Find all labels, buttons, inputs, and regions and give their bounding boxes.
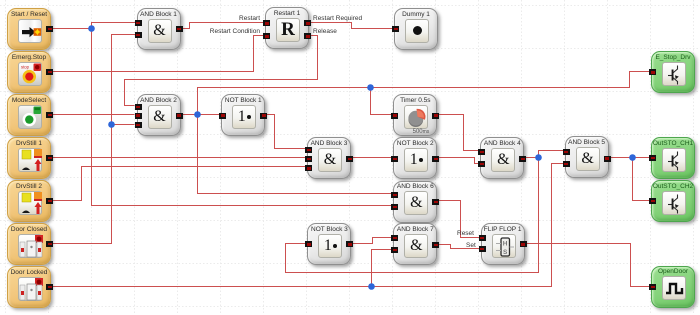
- wire Release to AND2 input 1: [125, 36, 318, 106]
- wire J3 up to AND7 input 2: [372, 250, 393, 287]
- wire AND1 output to Restart input: [181, 23, 263, 29]
- junction J7 AND5 output net: [629, 154, 636, 161]
- gate AND Block 5: [565, 136, 609, 178]
- junction J4 AND2 output net: [194, 111, 201, 118]
- wire Start/Reset to junction J1: [48, 28, 92, 30]
- output OpenDoor: [651, 266, 695, 308]
- gate NOT Block 2: [393, 137, 437, 179]
- wire NOT2 output to AND4 input 2: [438, 158, 479, 164]
- wire AND3 output to NOT2 input: [352, 157, 392, 159]
- label Set: [466, 242, 476, 249]
- input Emerg.Stop: [7, 51, 51, 93]
- wire Timer output to AND4 input 1: [438, 115, 479, 151]
- input Door Locked: [7, 266, 51, 308]
- input ModeSelect: [7, 94, 51, 136]
- label Restart: [239, 15, 260, 22]
- label Restart Condition: [210, 28, 260, 35]
- wire AND7 output to FLIP FLOP Set input: [438, 245, 479, 249]
- junction J5 E-stop line net: [367, 84, 374, 91]
- function Dummy 1: [394, 8, 438, 50]
- svg-text:stop: stop: [21, 64, 30, 69]
- gate AND Block 6: [393, 181, 437, 223]
- wire AND2 output through J4 to NOT1 input: [181, 114, 220, 116]
- svg-text:S: S: [503, 249, 508, 256]
- wire J2 up to AND1 input 2: [112, 35, 137, 125]
- input Start / Reset: [7, 8, 51, 50]
- wire AND6 output to FLIP FLOP Reset input: [438, 201, 479, 238]
- function FLIP FLOP 1: [481, 223, 525, 265]
- gate AND Block 2: [137, 94, 181, 136]
- junction J3 Door Locked net: [368, 283, 375, 290]
- wire Emerg.Stop to Restart Condition: [48, 36, 263, 72]
- wire J6 down and left to NOT3 input: [286, 158, 539, 273]
- output OutSTO_CH1: [651, 137, 695, 179]
- wire Door Locked to J3 to AND5 input 2: [48, 164, 563, 287]
- gate AND Block 7: [393, 223, 437, 265]
- wire DrvStill1 to AND3 input 2: [48, 157, 305, 159]
- svg-text:H: H: [502, 240, 507, 247]
- gate NOT Block 1: [221, 94, 265, 136]
- wire J7 down to OutSTO_CH2: [633, 158, 651, 201]
- wire NOT3 output to AND7 input 1: [352, 238, 392, 244]
- wire J1 down to AND6 input 2: [92, 29, 393, 206]
- gate NOT Block 3: [307, 223, 351, 265]
- input Door Closed: [7, 223, 51, 265]
- junction J1 Start/Reset net: [88, 25, 95, 32]
- wire J1 to AND1 input 1: [92, 23, 137, 29]
- junction J6 AND4 output net: [535, 154, 542, 161]
- gate AND Block 4: [480, 137, 524, 179]
- label Restart Required: [313, 15, 362, 22]
- output OutSTO_CH2: [651, 180, 695, 222]
- wire NOT1 output to AND3 input 1: [265, 115, 306, 149]
- gate AND Block 3: [307, 137, 351, 179]
- wire J4 up across J5 to E_Stop_Drv: [198, 72, 651, 115]
- junction J2 Door Closed net: [108, 121, 115, 128]
- gate AND Block 1: [137, 8, 181, 50]
- wire ModeSelect to AND2 input 2: [48, 114, 135, 116]
- label Release: [313, 28, 337, 35]
- function Timer 0.5s: [393, 94, 437, 136]
- wire FLIP FLOP output to OpenDoor: [524, 244, 651, 287]
- wire J4 down to AND6 input 1: [198, 115, 393, 194]
- wire J5 down to Timer input: [371, 88, 393, 115]
- wire AND5 output through J7 to OutSTO_CH1: [611, 157, 651, 159]
- wire Door Closed up to J2 and AND2 input 3: [48, 125, 135, 244]
- input DrvStill 2: [7, 180, 51, 222]
- value label 500ms: [413, 129, 430, 135]
- output E_Stop_Drv: [651, 51, 695, 93]
- input DrvStill 1: [7, 137, 51, 179]
- function Restart 1: [265, 7, 309, 49]
- wire AND4 output to J6 to AND5 input 1: [524, 151, 564, 158]
- label Reset: [457, 230, 474, 237]
- wire DrvStill2 to AND3 input 3: [48, 167, 305, 201]
- wire Restart Required to Dummy1: [311, 23, 393, 29]
